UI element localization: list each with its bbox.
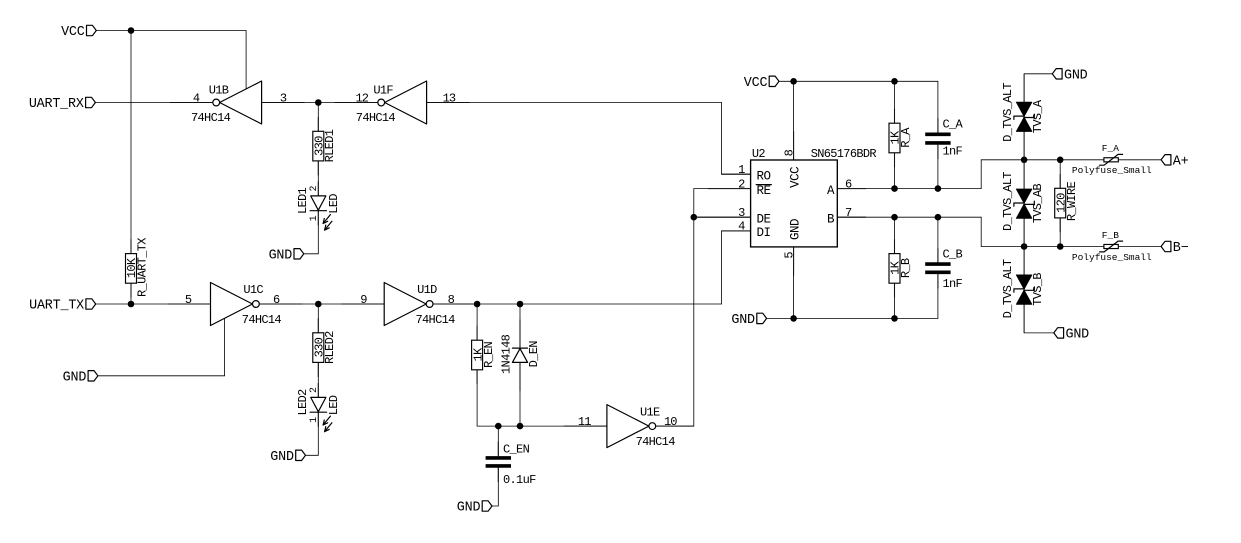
wire RO pin stub [722, 173, 751, 175]
wire R_B top [894, 217, 896, 253]
wire TVS gnd bottom horizontal [1024, 332, 1054, 334]
net flag B- [1161, 241, 1189, 256]
svg-text:R_A: R_A [899, 127, 913, 148]
polyfuse F_B [1072, 230, 1152, 263]
pins C_B [937, 248, 939, 262]
inverter U1B [191, 81, 287, 125]
pins R_A [894, 109, 896, 123]
svg-text:DE: DE [757, 212, 771, 226]
svg-text:5: 5 [782, 252, 796, 259]
wire DE pin [694, 216, 751, 218]
svg-text:GND: GND [731, 313, 755, 328]
svg-text:GND: GND [1066, 328, 1090, 343]
resistor R_UART_TX [125, 238, 150, 297]
svg-text:4: 4 [738, 220, 745, 234]
svg-text:12: 12 [355, 91, 368, 105]
svg-text:U2: U2 [752, 147, 766, 161]
wire TVS_A bottom [1023, 131, 1025, 159]
svg-text:A: A [827, 184, 835, 198]
inverter U1D [360, 283, 455, 327]
wire TVS_AB bottom [1023, 218, 1025, 246]
svg-text:RE: RE [757, 184, 771, 198]
svg-text:GND: GND [788, 219, 802, 240]
inverter U1F [355, 81, 455, 125]
svg-text:74HC14: 74HC14 [636, 435, 676, 449]
junction UART_TX/R_UART_TX [128, 301, 135, 308]
svg-text:TVS_AB: TVS_AB [1031, 184, 1045, 224]
net flag UART_TX [29, 299, 96, 314]
wire U1B out to U1F [262, 102, 378, 104]
svg-text:8: 8 [448, 293, 455, 307]
wire DI pin stub [722, 230, 751, 232]
svg-text:RO: RO [757, 169, 771, 183]
net flag UART_RX [29, 97, 96, 112]
svg-text:VCC: VCC [744, 76, 768, 91]
TVS diode D_TVS_A [1001, 83, 1045, 142]
svg-text:B: B [827, 212, 835, 226]
svg-text:3: 3 [280, 91, 287, 105]
wire A+ rail after fuse [1118, 159, 1161, 161]
capacitor C_B [925, 248, 962, 291]
wire C_EN bottom [497, 468, 499, 506]
svg-text:R_EN: R_EN [482, 341, 496, 368]
junction U1D.8/R_EN [474, 301, 481, 308]
net flag GND TVS bottom [1054, 328, 1089, 343]
svg-text:TVS_A: TVS_A [1031, 99, 1045, 133]
wire U1C out to U1D [259, 303, 384, 305]
svg-text:D_TVS_ALT: D_TVS_ALT [1001, 83, 1015, 142]
wire B jog down [980, 217, 982, 246]
junction R_WIRE bottom [1057, 243, 1064, 250]
svg-text:U1F: U1F [373, 83, 393, 97]
svg-text:5: 5 [185, 293, 192, 307]
wire U1F in to U2 RO corner [427, 102, 722, 104]
wire TVS_B bottom [1023, 304, 1025, 333]
wire LED2 to GND [317, 412, 319, 455]
svg-text:8: 8 [782, 149, 796, 156]
svg-text:UART_RX: UART_RX [29, 97, 84, 112]
svg-text:3: 3 [738, 206, 745, 220]
wire R_UART_TX bottom [130, 283, 132, 304]
wire A+ rail [981, 159, 1104, 161]
LED LED1 [296, 185, 341, 230]
wire LED1 GND horizontal [304, 253, 319, 255]
inverter U1E [578, 405, 677, 449]
wire C_A top [937, 81, 939, 132]
wire R_B bottom [894, 283, 896, 318]
pins C_EN [497, 442, 499, 456]
svg-text:B−: B− [1173, 241, 1189, 256]
svg-text:A+: A+ [1173, 154, 1189, 169]
svg-text:SN65176BDR: SN65176BDR [811, 147, 877, 161]
wire R_WIRE top connect [1059, 160, 1061, 189]
pins LED2 [317, 383, 319, 397]
pins U1F [334, 102, 377, 104]
wire B line [837, 216, 981, 218]
svg-text:GND: GND [63, 370, 87, 385]
net flag GND U1C [63, 370, 98, 385]
svg-text:1: 1 [738, 163, 745, 177]
net flag GND C_EN [457, 501, 492, 516]
svg-text:13: 13 [443, 91, 456, 105]
pins R_B [894, 239, 896, 253]
wire VCC rail top-left [96, 30, 246, 32]
svg-text:1: 1 [309, 417, 320, 423]
svg-text:4: 4 [193, 91, 200, 105]
svg-text:1nF: 1nF [943, 145, 963, 159]
wire TVS_A top [1023, 74, 1025, 102]
svg-text:F_A: F_A [1102, 143, 1119, 154]
wire D_EN bottom [519, 362, 521, 426]
junction U1C.6/RLED2 [315, 301, 322, 308]
svg-text:U1D: U1D [417, 283, 437, 297]
wire A jog up [980, 160, 982, 189]
wire C_B bottom [937, 274, 939, 318]
junction pin8 [790, 78, 797, 85]
junction R_WIRE top [1057, 157, 1064, 164]
wire pin5 vertical [793, 247, 795, 319]
capacitor C_EN [486, 442, 536, 487]
svg-text:R_UART_TX: R_UART_TX [136, 238, 150, 297]
resistor RLED1 [313, 129, 338, 162]
svg-text:U1B: U1B [209, 83, 229, 97]
svg-text:C_EN: C_EN [503, 442, 530, 456]
wire RLED2 top [317, 304, 319, 333]
junction pin5 [790, 315, 797, 322]
wire D_EN top [519, 304, 521, 348]
wire GND to U1C [98, 375, 225, 377]
pins D_EN [519, 319, 521, 348]
svg-text:74HC14: 74HC14 [191, 111, 231, 125]
TVS diode D_TVS_AB [1001, 172, 1045, 231]
junction TVS/B- [1021, 243, 1028, 250]
svg-text:D_TVS_ALT: D_TVS_ALT [1001, 259, 1015, 318]
wire C_A bottom [937, 145, 939, 189]
pins RLED1 [317, 117, 319, 131]
junction C_A/A [935, 185, 942, 192]
net flag A+ [1161, 154, 1189, 169]
svg-text:LED: LED [327, 194, 341, 214]
svg-text:2: 2 [738, 177, 745, 191]
junction R_A top [891, 78, 898, 85]
wire C_B top [937, 217, 939, 262]
wire B- rail after fuse [1118, 246, 1161, 248]
junction C_EN tap [495, 423, 502, 430]
wire RLED1 top [317, 103, 319, 132]
svg-text:GND: GND [270, 450, 294, 465]
junction TVS_A/A [1021, 157, 1028, 164]
junction R_A/A [891, 185, 898, 192]
wire C_EN GND horizontal [492, 505, 498, 507]
pins LED1 [317, 182, 319, 196]
wire B- rail [981, 246, 1104, 248]
net flag GND U2 [731, 313, 766, 328]
diode D_EN [500, 334, 541, 374]
svg-text:Polyfuse_Small: Polyfuse_Small [1072, 252, 1152, 263]
wire U1D out run to DI corner [433, 303, 722, 305]
net flag GND LED2 [270, 450, 305, 465]
wire R_UART_TX top [130, 31, 132, 254]
svg-text:GND: GND [269, 248, 293, 263]
pins U1C [168, 303, 211, 305]
wire EN node horizontal [477, 425, 607, 427]
svg-text:6: 6 [273, 293, 280, 307]
pins U1B [170, 102, 213, 104]
wire TVS_B top [1023, 247, 1025, 276]
svg-text:6: 6 [845, 177, 852, 191]
wire TVS gnd top horizontal [1024, 73, 1052, 75]
resistor R_WIRE [1054, 182, 1079, 222]
svg-text:C_B: C_B [943, 248, 963, 262]
capacitor C_A [925, 117, 963, 158]
svg-text:R_WIRE: R_WIRE [1065, 182, 1079, 222]
wire RLED1 to LED1 [317, 161, 319, 196]
wire vertical to RO [721, 103, 723, 175]
junction C_B/B [935, 214, 942, 221]
IC U2 SN65176BDR [738, 147, 876, 259]
wire R_EN bottom [476, 370, 478, 426]
pins C_A [937, 118, 939, 132]
net flag GND TVS top [1052, 68, 1087, 83]
svg-text:UART_TX: UART_TX [29, 299, 84, 314]
LED LED2 [296, 387, 341, 432]
svg-text:RLED1: RLED1 [323, 129, 337, 162]
resistor RLED2 [313, 331, 338, 364]
net flag VCC top-left [61, 25, 96, 40]
wire R_WIRE bottom connect [1059, 218, 1061, 247]
svg-text:74HC14: 74HC14 [356, 111, 396, 125]
pins R_UART_TX [130, 239, 132, 253]
wire UART_TX to U1C [96, 303, 211, 305]
wire UART_RX to U1B [95, 102, 212, 104]
svg-text:11: 11 [578, 415, 591, 429]
junction D_EN bottom [517, 423, 524, 430]
svg-text:C_A: C_A [943, 117, 964, 131]
svg-text:D_EN: D_EN [527, 341, 541, 368]
pins U1D [341, 303, 384, 305]
svg-text:VCC: VCC [61, 25, 85, 40]
resistor R_B [889, 254, 914, 284]
svg-text:74HC14: 74HC14 [416, 313, 456, 327]
net flag GND LED1 [269, 248, 304, 263]
pins U1E [564, 425, 607, 427]
wire U1E out [656, 425, 694, 427]
resistor R_EN [471, 340, 496, 370]
wire RLED2 to LED2 [317, 363, 319, 398]
svg-text:Polyfuse_Small: Polyfuse_Small [1072, 165, 1152, 176]
svg-text:U1C: U1C [243, 283, 263, 297]
svg-text:F_B: F_B [1102, 230, 1119, 241]
svg-text:DI: DI [757, 226, 771, 240]
pins R_EN [476, 326, 478, 340]
wire TVS_AB top [1023, 160, 1025, 189]
svg-text:74HC14: 74HC14 [242, 313, 282, 327]
junction U1D.8/D_EN [517, 301, 524, 308]
junction DE tap [691, 214, 698, 221]
svg-text:1N4148: 1N4148 [500, 334, 514, 374]
inverter U1C [185, 283, 282, 327]
svg-text:TVS_B: TVS_B [1031, 273, 1045, 306]
svg-text:1: 1 [309, 215, 320, 221]
wire C_EN top [497, 426, 499, 456]
TVS diode D_TVS_B [1001, 259, 1045, 318]
wire vertical DI [721, 231, 723, 304]
svg-text:1nF: 1nF [943, 277, 963, 291]
junction R_B/B [891, 214, 898, 221]
svg-text:D_TVS_ALT: D_TVS_ALT [1001, 172, 1015, 231]
wire VCC drop to U1B [245, 31, 247, 90]
resistor R_A [889, 123, 914, 153]
svg-text:7: 7 [845, 206, 852, 220]
wire LED1 to GND [317, 211, 319, 254]
svg-text:LED: LED [327, 395, 341, 415]
net flag VCC U2 [744, 76, 779, 91]
wire pin8 vertical [793, 81, 795, 160]
pins U2 [722, 173, 751, 175]
wire vertical RE/DE [693, 189, 695, 427]
svg-text:2: 2 [309, 185, 320, 191]
wire R_EN top [476, 304, 478, 340]
svg-text:10: 10 [664, 415, 677, 429]
pins R_WIRE [1059, 174, 1061, 188]
wire GND rail U2 [767, 317, 938, 319]
junction R_B bottom [891, 315, 898, 322]
pins RLED2 [317, 318, 319, 332]
wire A line [837, 188, 981, 190]
wire RE pin [694, 188, 751, 190]
svg-text:GND: GND [1064, 68, 1088, 83]
svg-text:VCC: VCC [788, 167, 802, 188]
svg-text:R_B: R_B [899, 258, 913, 278]
polyfuse F_A [1072, 143, 1152, 176]
junction U1B.3/RLED1 [315, 99, 322, 106]
svg-text:0.1uF: 0.1uF [503, 473, 536, 487]
svg-text:RLED2: RLED2 [323, 331, 337, 364]
wire R_A top [894, 81, 896, 123]
wire R_A bottom [894, 153, 896, 189]
svg-text:U1E: U1E [640, 406, 660, 420]
wire VCC flag to pin8 rail [779, 80, 938, 82]
wire GND up to U1C body [224, 318, 226, 375]
svg-text:GND: GND [457, 501, 481, 516]
wire LED2 GND horizontal [306, 454, 319, 456]
svg-text:9: 9 [360, 293, 367, 307]
junction VCC/R_UART_TX [128, 27, 135, 34]
svg-text:2: 2 [309, 387, 320, 393]
